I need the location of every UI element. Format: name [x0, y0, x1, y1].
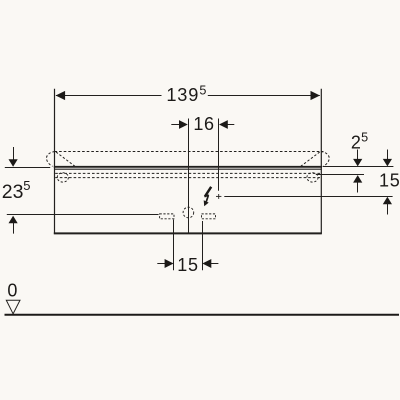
bottom dimension 15 extension lines: [174, 220, 203, 271]
slab top extension line A right: [323, 166, 394, 168]
washbasin hidden outline right diagonal: [301, 152, 320, 166]
outlet level line C: [224, 196, 392, 198]
svg-text:15: 15: [379, 171, 400, 191]
washbasin bottom extension line B right: [316, 174, 364, 176]
dimension 139.5 right arrow: [311, 91, 321, 100]
bottom dimension 15 line and arrows: [157, 263, 218, 265]
svg-text:15: 15: [177, 255, 198, 275]
hidden drawer edge dashed line A: [55, 172, 321, 174]
dimension 2.5 upper arrow: [357, 150, 359, 161]
dimension 139.5 line: [56, 95, 320, 97]
dimension 23.5 upper arrow: [13, 147, 15, 161]
outlet vertical line: [218, 119, 220, 191]
right hidden bracket ellipse: [307, 173, 318, 182]
svg-text:0: 0: [7, 280, 17, 300]
dimension 15 right lower arrow: [383, 197, 392, 205]
floor line: [5, 314, 400, 316]
left hidden bracket ellipse: [57, 173, 68, 182]
cabinet body: [54, 89, 322, 234]
svg-text:2: 2: [351, 133, 361, 153]
drain hole dashed circle: [183, 207, 194, 218]
dimension 23.5 lower arrow: [9, 216, 18, 224]
washbasin hidden outline left arc: [46, 152, 54, 167]
svg-text:5: 5: [199, 83, 206, 97]
dimension 2.5 lower arrow: [353, 175, 362, 183]
svg-text:23: 23: [2, 181, 24, 203]
svg-text:139: 139: [166, 85, 199, 105]
dimension 15 right upper arrow: [387, 150, 389, 161]
washbasin hidden outline top: [55, 151, 324, 153]
svg-text:16: 16: [193, 114, 214, 134]
svg-text:5: 5: [361, 131, 368, 145]
washbasin hidden outline left diagonal: [56, 152, 75, 166]
hidden drawer edge dashed line B: [55, 177, 321, 179]
electrical flash symbol: [204, 187, 212, 206]
svg-text:5: 5: [23, 178, 30, 193]
dimension 139.5 left arrow: [56, 91, 66, 100]
washbasin hidden outline right arc: [321, 152, 329, 167]
left dimension 23.5 top extension line: [5, 167, 50, 169]
outlet plus mark: [216, 194, 221, 199]
right hidden rectangle: [202, 214, 216, 219]
center vertical line / drain axis: [188, 119, 190, 234]
countertop slab: [54, 167, 322, 169]
dimension 16 arrows: [171, 124, 234, 126]
left dimension 23.5 bottom extension line: [7, 214, 159, 216]
left hidden rectangle: [160, 214, 174, 219]
datum triangle: [6, 300, 20, 314]
